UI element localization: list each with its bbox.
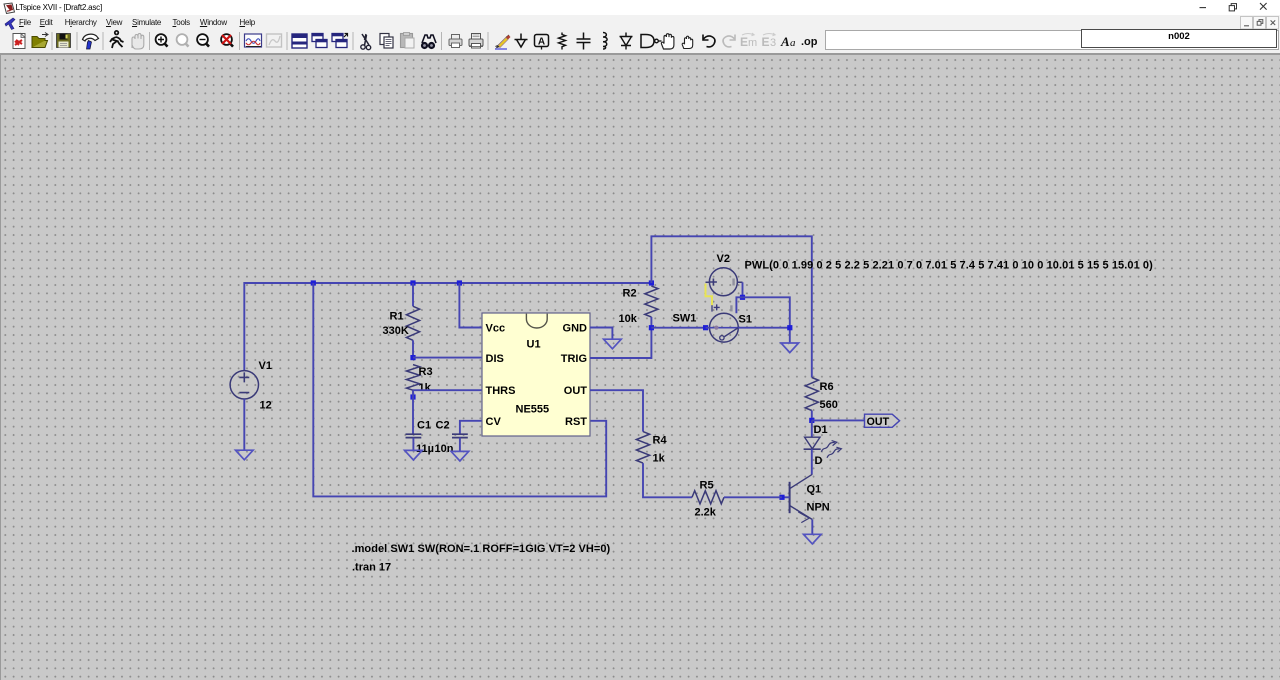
wire CV pin xyxy=(460,421,482,434)
svg-text:NE555: NE555 xyxy=(516,404,550,416)
toolbar diode xyxy=(620,33,633,50)
wire Q1 base xyxy=(782,496,790,498)
svg-text:2.2k: 2.2k xyxy=(695,507,717,519)
node junction Vcc rail xyxy=(457,280,462,285)
wire GND pin stub xyxy=(590,328,612,340)
wire V2- to S1 minus control xyxy=(736,297,742,313)
node junction top rail at x=312 xyxy=(311,280,316,285)
node junction V2- xyxy=(740,295,745,300)
capacitor C2 xyxy=(452,434,468,437)
wire top supply rail xyxy=(244,283,651,371)
capacitor C1 xyxy=(406,434,422,437)
toolbar text Aa xyxy=(780,34,796,49)
wire Q1 emitter to ground xyxy=(811,520,813,535)
node junction R2 top xyxy=(649,280,654,285)
ground at GND pin xyxy=(604,339,622,349)
svg-text:.tran 17: .tran 17 xyxy=(352,562,391,574)
resistor R4 xyxy=(636,432,649,464)
svg-text:10k: 10k xyxy=(619,313,638,325)
toolbar save xyxy=(57,34,71,48)
toolbar drag hand xyxy=(682,36,693,48)
toolbar separator xyxy=(77,32,78,50)
svg-text:Vcc: Vcc xyxy=(486,323,506,335)
toolbar undo xyxy=(703,35,715,47)
node junction S1 left xyxy=(703,325,708,330)
ground below Q1 xyxy=(804,534,822,544)
node junction DIS xyxy=(410,355,415,360)
toolbar redo (disabled) xyxy=(723,35,735,47)
svg-text:1k: 1k xyxy=(419,382,432,394)
svg-text:12: 12 xyxy=(260,400,272,412)
wire V2- to ground drop xyxy=(743,297,790,343)
svg-text:OUT: OUT xyxy=(564,385,588,397)
svg-text:10n: 10n xyxy=(435,443,454,455)
svg-text:E: E xyxy=(740,35,748,49)
svg-text:R4: R4 xyxy=(653,435,668,447)
svg-text:.op: .op xyxy=(801,36,818,48)
toolbar zoom extents (disabled) xyxy=(177,34,189,47)
svg-text:R6: R6 xyxy=(820,381,834,393)
svg-text:D1: D1 xyxy=(814,424,828,436)
svg-text:V2: V2 xyxy=(717,253,730,265)
wire R3 to C1 xyxy=(412,390,414,434)
toolbar cascade window xyxy=(312,34,327,48)
svg-text:NPN: NPN xyxy=(807,502,830,514)
svg-text:OUT: OUT xyxy=(867,416,890,428)
toolbar halt hand (disabled) xyxy=(132,34,144,50)
wire yellow V2+ to S1 control xyxy=(706,284,713,306)
node junction R1 top xyxy=(410,280,415,285)
wire D1 anode xyxy=(811,420,813,437)
toolbar fft (disabled) xyxy=(267,34,282,47)
toolbar .op xyxy=(801,36,818,48)
wire R2 bottom lead xyxy=(650,317,652,328)
wire TRIG pin xyxy=(590,328,651,358)
svg-text:3: 3 xyxy=(770,37,776,49)
svg-text:PWL(0 0 1.99 0 2 5 2.2 5 2.21: PWL(0 0 1.99 0 2 5 2.2 5 2.21 0 7 0 7.01… xyxy=(745,260,1154,272)
svg-text:Q1: Q1 xyxy=(807,484,822,496)
svg-text:TRIG: TRIG xyxy=(561,353,587,365)
svg-text:DIS: DIS xyxy=(486,353,504,365)
wire THRS pin xyxy=(413,389,482,391)
transistor Q1 xyxy=(790,474,813,522)
svg-text:R3: R3 xyxy=(419,366,433,378)
wire RST feedback loop xyxy=(313,283,606,496)
ground below S1 xyxy=(781,343,799,353)
svg-text:R1: R1 xyxy=(390,311,404,323)
node junction S1 right xyxy=(787,325,792,330)
svg-text:330K: 330K xyxy=(383,325,409,337)
wire D1 cathode to Q1 xyxy=(811,449,813,474)
svg-text:560: 560 xyxy=(820,399,838,411)
toolbar ground symbol xyxy=(515,34,528,48)
wire top right rail xyxy=(651,236,811,377)
resistor R3 xyxy=(406,365,419,391)
resistor R2 xyxy=(645,286,658,317)
toolbar zoom undo xyxy=(221,34,233,47)
svg-text:GND: GND xyxy=(563,323,588,335)
resistor R5 xyxy=(692,491,724,504)
toolbar separator xyxy=(488,32,489,50)
svg-text:S1: S1 xyxy=(739,314,752,326)
toolbar inductor xyxy=(603,33,607,50)
ground below V1 xyxy=(236,450,254,460)
wire Vcc pin xyxy=(459,283,482,328)
wire R1 top lead xyxy=(412,283,414,306)
toolbar cut xyxy=(361,34,371,50)
node junction R2 bottom xyxy=(649,325,654,330)
svg-text:.model SW1 SW(RON=.1 ROFF=1GIG: .model SW1 SW(RON=.1 ROFF=1GIG VT=2 VH=0… xyxy=(352,543,611,555)
wire DIS pin xyxy=(413,357,482,359)
ground below C2 xyxy=(451,451,469,461)
toolbar move hand xyxy=(661,34,674,49)
U1 top notch xyxy=(526,314,547,328)
toolbar separator xyxy=(52,32,53,50)
node OUT flag xyxy=(865,414,900,428)
toolbar paste (disabled) xyxy=(401,33,415,49)
wire V1 to ground xyxy=(243,399,245,450)
wire V2- down xyxy=(742,282,744,297)
toolbar separator xyxy=(353,32,354,50)
op-amp U1 NE555 body xyxy=(482,313,590,436)
svg-text:CV: CV xyxy=(486,416,502,428)
wire R6 bottom lead xyxy=(811,411,813,421)
toolbar new schematic xyxy=(13,34,25,49)
wire C2 to ground xyxy=(459,438,461,452)
toolbar separator xyxy=(441,32,442,50)
svg-text:E: E xyxy=(762,35,770,49)
svg-text:a: a xyxy=(790,37,796,49)
toolbar tile window xyxy=(292,34,307,48)
wire R4 bottom to R5 xyxy=(643,463,692,497)
svg-text:A: A xyxy=(538,37,545,48)
toolbar copy xyxy=(380,34,393,49)
svg-text:SW1: SW1 xyxy=(673,313,697,325)
wire OUT pin to R4 xyxy=(590,390,643,431)
svg-text:R5: R5 xyxy=(700,480,714,492)
wire to OUT flag xyxy=(812,419,865,421)
svg-text:m: m xyxy=(748,37,757,49)
wire C1 to ground xyxy=(412,438,414,451)
svg-text:C1: C1 xyxy=(417,420,431,432)
node junction Q1 base xyxy=(779,495,784,500)
toolbar resistor xyxy=(559,33,566,50)
toolbar control panel hammer xyxy=(83,34,99,49)
node junction OUT xyxy=(809,418,814,423)
toolbar print setup xyxy=(469,34,483,49)
svg-text:A: A xyxy=(780,34,790,49)
toolbar open xyxy=(32,33,48,48)
ground below C1 xyxy=(405,450,423,460)
wire S1 right xyxy=(738,327,790,329)
toolbar zoom in xyxy=(156,34,168,47)
voltage source V1 xyxy=(230,371,258,399)
resistor R1 xyxy=(406,306,419,340)
wire R2 to S1 xyxy=(651,327,705,329)
svg-text:1k: 1k xyxy=(653,453,666,465)
toolbar print xyxy=(449,35,462,48)
toolbar capacitor xyxy=(577,33,591,50)
toolbar separator xyxy=(103,32,104,50)
toolbar find binoculars xyxy=(421,35,436,49)
toolbar separator xyxy=(287,32,288,50)
toolbar run man xyxy=(110,31,124,48)
toolbar Em (disabled) xyxy=(740,33,757,49)
toolbar zoom out xyxy=(197,34,209,47)
svg-text:U1: U1 xyxy=(527,339,541,351)
wire R1 to DIS node xyxy=(412,340,414,357)
svg-text:V1: V1 xyxy=(259,360,272,372)
svg-text:D: D xyxy=(815,455,823,467)
toolbar waveform xyxy=(245,34,262,47)
wire R5 to Q1 base xyxy=(724,496,782,498)
resistor R6 xyxy=(805,378,818,411)
svg-text:THRS: THRS xyxy=(486,385,516,397)
svg-text:C2: C2 xyxy=(436,420,450,432)
voltage source V2 xyxy=(706,268,743,296)
toolbar component gate xyxy=(641,35,662,48)
toolbar E3 (disabled) xyxy=(762,33,777,49)
toolbar cascade new window xyxy=(332,34,348,48)
toolbar net label xyxy=(535,35,549,50)
toolbar separator xyxy=(239,32,240,50)
toolbar separator xyxy=(149,32,150,50)
node junction below R3 xyxy=(410,394,415,399)
toolbar wire pencil xyxy=(495,35,511,49)
switch S1 xyxy=(706,304,739,342)
svg-text:R2: R2 xyxy=(623,288,637,300)
svg-text:RST: RST xyxy=(565,416,587,428)
diode D1 xyxy=(804,437,842,458)
